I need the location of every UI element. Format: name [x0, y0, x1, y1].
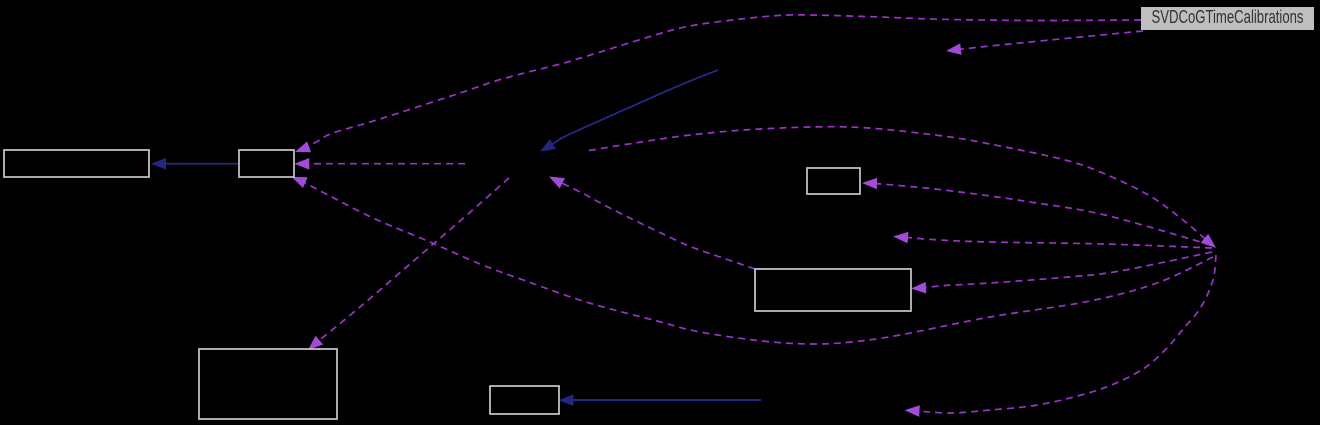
- svg-text:SVDCoGTimeCalibrations: SVDCoGTimeCalibrations: [1152, 7, 1304, 27]
